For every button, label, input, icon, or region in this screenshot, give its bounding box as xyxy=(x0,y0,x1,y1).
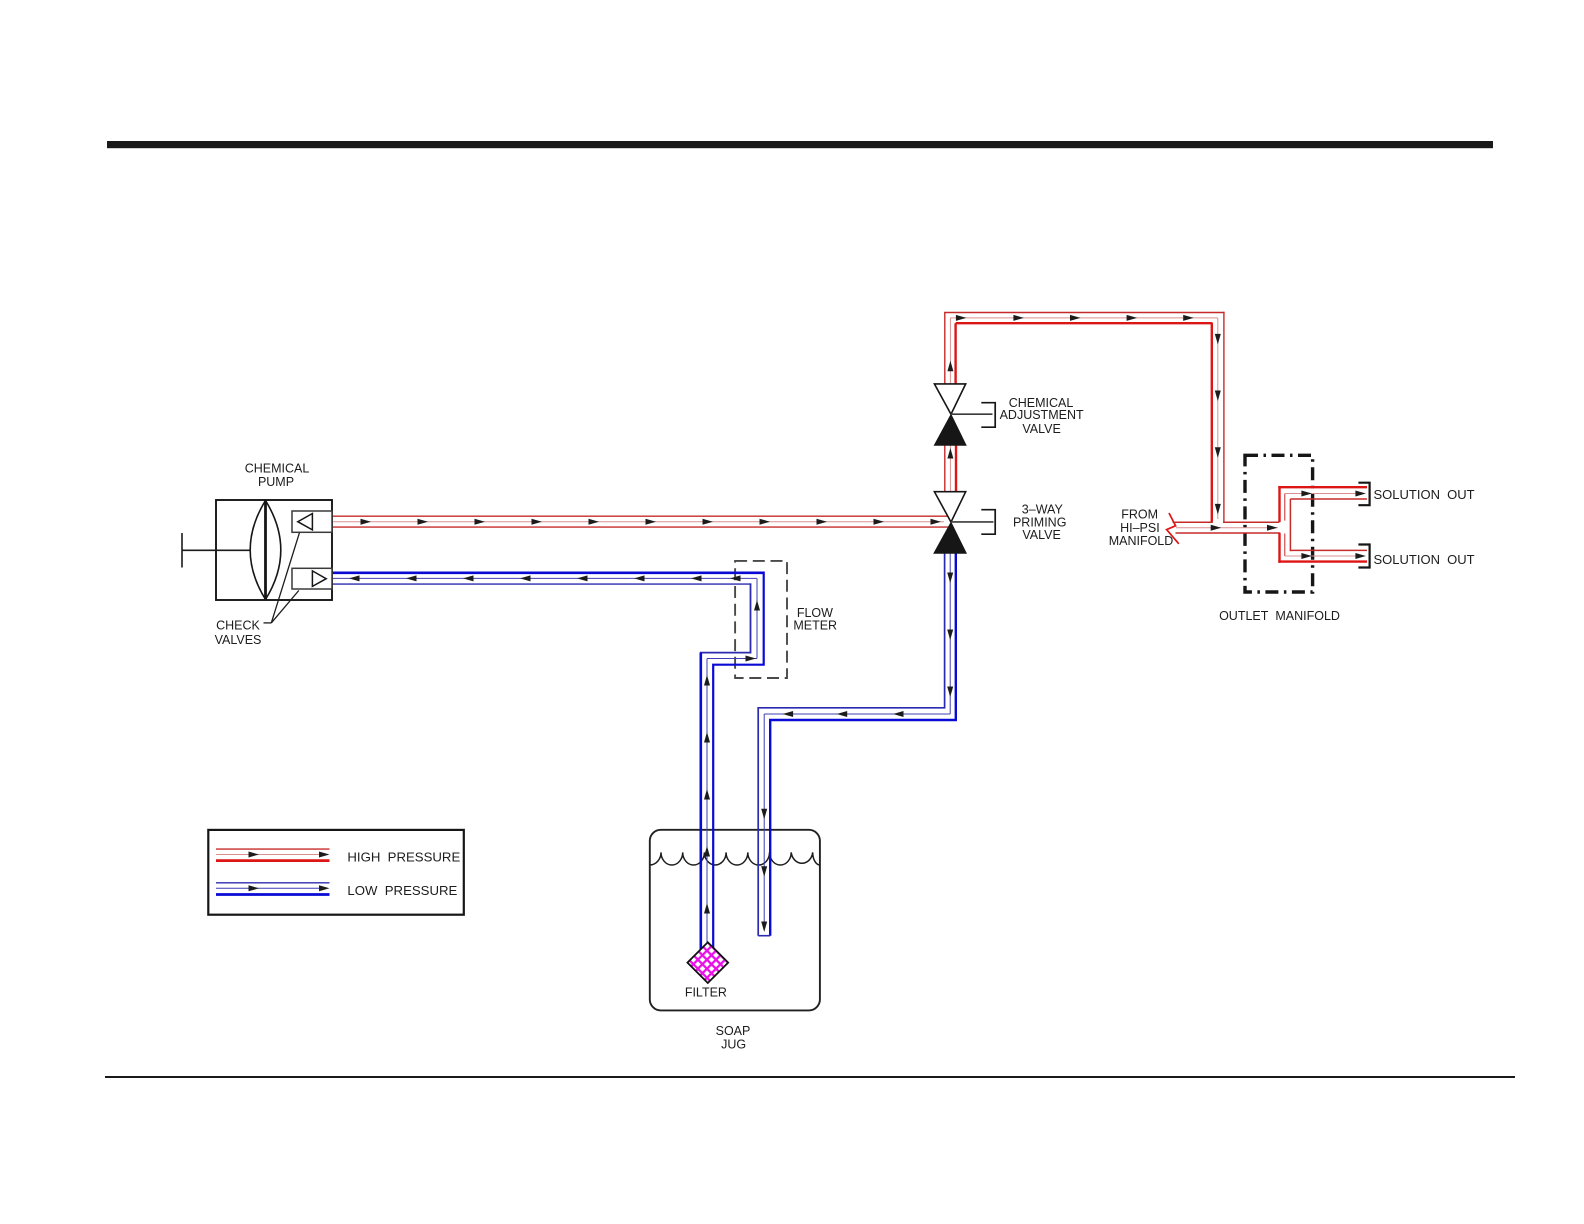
svg-text:HIGH PRESSURE: HIGH PRESSURE xyxy=(347,849,460,864)
chemical pump body xyxy=(216,500,332,600)
check valve (outlet, top) xyxy=(292,511,332,532)
legend low pressure sample xyxy=(216,883,330,895)
wire: suction vertical through flow meter with jog xyxy=(701,572,764,951)
wire: high-pressure right vertical run xyxy=(1212,312,1224,522)
pump inlet tee xyxy=(182,533,251,568)
wire: suction dip tube to filter xyxy=(701,653,710,951)
liquid surface wave xyxy=(650,852,820,865)
wire: solution out top branch xyxy=(1278,483,1369,506)
wire: low-pressure suction run flow meter to pump xyxy=(332,573,764,584)
svg-text:FILTER: FILTER xyxy=(685,986,727,1000)
label CHEMICAL PUMP xyxy=(245,462,310,490)
svg-text:PUMP: PUMP xyxy=(258,475,294,489)
bottom border line xyxy=(105,1076,1515,1078)
svg-text:VALVE: VALVE xyxy=(1022,422,1060,436)
chemical adjustment valve xyxy=(934,384,995,445)
soap jug xyxy=(650,830,820,1011)
legend high pressure sample xyxy=(216,849,330,861)
wire: high-pressure feed to outlet manifold xyxy=(1173,522,1281,533)
svg-text:OUTLET MANIFOLD: OUTLET MANIFOLD xyxy=(1219,609,1340,623)
svg-text:MANIFOLD: MANIFOLD xyxy=(1109,534,1174,548)
svg-text:VALVES: VALVES xyxy=(215,633,262,647)
wire: priming return from 3-way valve down xyxy=(758,553,956,936)
svg-text:JUG: JUG xyxy=(721,1038,746,1052)
3-way priming valve xyxy=(934,492,995,554)
outlet manifold enclosure xyxy=(1245,455,1313,592)
svg-text:SOLUTION OUT: SOLUTION OUT xyxy=(1374,487,1475,502)
svg-text:SOLUTION OUT: SOLUTION OUT xyxy=(1374,552,1475,567)
wire: solution out bottom branch xyxy=(1278,545,1369,568)
label FLOW METER xyxy=(793,606,837,632)
label 3-WAY PRIMING VALVE xyxy=(1013,503,1066,542)
filter xyxy=(687,942,728,983)
svg-text:ADJUSTMENT: ADJUSTMENT xyxy=(1000,408,1084,422)
legend box xyxy=(208,830,463,915)
svg-text:METER: METER xyxy=(793,619,837,633)
label CHEMICAL ADJUSTMENT VALVE xyxy=(1000,396,1084,436)
top border bar xyxy=(107,141,1493,148)
svg-text:FROM: FROM xyxy=(1121,507,1158,521)
svg-text:HI–PSI: HI–PSI xyxy=(1120,521,1160,535)
flow meter enclosure xyxy=(735,561,787,678)
pipe break symbol xyxy=(1167,513,1179,544)
pump lens xyxy=(250,501,281,600)
svg-text:LOW PRESSURE: LOW PRESSURE xyxy=(347,883,457,898)
wire: high-pressure top horizontal run xyxy=(944,313,1225,324)
label FROM HI-PSI MANIFOLD xyxy=(1109,507,1174,548)
wire: high-pressure line pump to 3-way priming valve xyxy=(332,516,949,527)
svg-text:CHECK: CHECK xyxy=(216,619,260,633)
wire: high-pressure riser between valves xyxy=(945,445,956,491)
svg-text:VALVE: VALVE xyxy=(1022,528,1060,542)
svg-text:CHEMICAL: CHEMICAL xyxy=(245,462,310,476)
svg-text:SOAP: SOAP xyxy=(716,1024,751,1038)
check valve (inlet, bottom) xyxy=(292,568,332,589)
label CHECK VALVES with leaders xyxy=(215,533,300,647)
wire: high-pressure riser above chemical adjustment valve xyxy=(945,313,956,384)
wire: manifold split verticals xyxy=(1280,486,1291,563)
label SOAP JUG xyxy=(716,1024,751,1052)
